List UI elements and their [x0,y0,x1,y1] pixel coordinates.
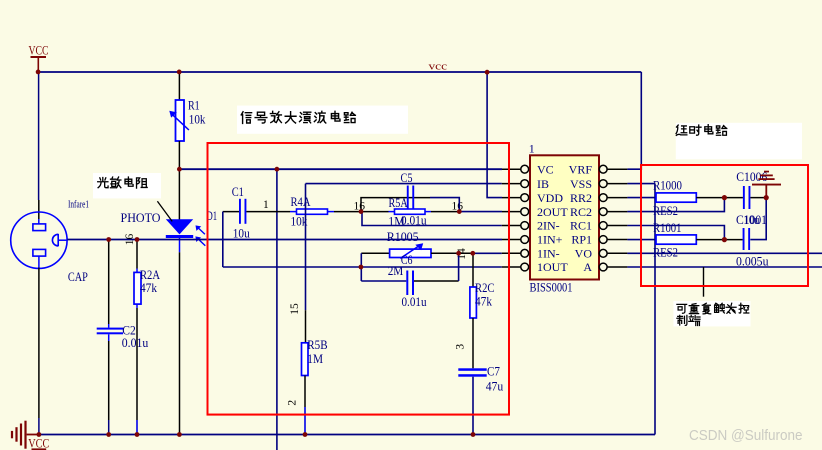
wire VDD drop x487 [487,72,502,198]
wire VCC top rail [38,71,641,73]
junction VDD drop [485,70,490,75]
wire node16R to 2OUT pin [459,211,502,213]
wire node16L to R5A [361,211,389,213]
svg-text:1IN-: 1IN- [537,247,560,261]
wire A row to edge [627,266,822,268]
node 16 right [457,209,462,214]
svg-text:0.01u: 0.01u [122,336,149,350]
wire RR2 row to R1000 [627,197,656,199]
capacitor C2 plates [97,328,123,330]
capacitor C1 plates [239,199,241,224]
svg-text:1: 1 [263,199,269,211]
label yan shi dian lu [676,125,727,136]
wire C7 bottom lead [472,377,474,435]
svg-text:2IN-: 2IN- [537,219,560,233]
junction R2C top [470,251,475,256]
svg-text:VO: VO [575,247,593,261]
wire R2C top lead [472,253,474,287]
sensor electrode 2 [33,249,46,256]
junction D1 cathode [177,432,182,437]
callout retrigger pointer [703,267,705,297]
wire left column to sensor [38,72,40,200]
pin 1IN+ circle [521,236,529,244]
wire pot row 1IN- [361,252,389,254]
svg-text:VCC: VCC [29,43,49,58]
svg-text:RC1: RC1 [570,219,592,233]
signal box red frame top copy [208,143,510,415]
pin RP1 lead [607,239,627,241]
junction R5B bottom [303,432,308,437]
IC pin names right [569,162,593,274]
wire RC1 row into box [627,226,724,240]
svg-text:VRF: VRF [569,162,593,176]
wire VSS drop x655 [654,184,656,435]
pin RC2 lead [607,211,627,213]
svg-text:R4A: R4A [291,195,311,209]
pin VRF lead [607,168,627,170]
svg-text:10u: 10u [744,213,761,227]
wire RC2 row into box [627,198,724,212]
photodiode D1 triangle [166,219,193,234]
svg-text:C1: C1 [232,185,244,199]
junction pot right / C6 [456,251,461,256]
wire C2 bottom lead [108,334,110,341]
svg-text:CSDN @Sulfurone: CSDN @Sulfurone [689,428,803,444]
pin VSS lead [607,183,627,185]
sensor drain half-circle [52,234,58,246]
svg-text:A: A [583,260,592,274]
resistor R5B body [302,343,309,376]
svg-text:10k: 10k [189,113,206,127]
junction C2 top [106,237,111,242]
resistor R2A body [134,272,141,304]
junction R1001-C1001 [722,237,727,242]
wire sensor top lead [38,200,40,219]
pin RR2 circle [599,194,607,202]
svg-text:VDD: VDD [537,191,563,205]
wire long column x277 [276,169,278,450]
capacitor C7 plates [458,368,486,371]
svg-text:C1006: C1006 [736,170,767,184]
pin 2OUT circle [521,208,529,216]
junction VCC rail left [36,70,41,75]
svg-text:R5B: R5B [307,338,327,352]
R1 wiper arrow [173,115,189,130]
svg-text:R2C: R2C [475,281,495,295]
delay box red frame [641,165,808,286]
label guang min dian zu [98,177,147,188]
svg-text:PHOTO: PHOTO [121,210,161,225]
wire R2C to C7 [472,318,474,368]
svg-text:Infare1: Infare1 [68,199,89,211]
wire R5B bottom lead [304,376,306,408]
resistor R1 (pot) body [176,100,185,141]
wire VRF to vcc rail [627,72,641,170]
svg-text:1: 1 [529,142,535,156]
pin VO circle [599,249,607,257]
svg-text:1OUT: 1OUT [537,260,568,274]
pin 2IN- circle [521,222,529,230]
capacitor C5 plates [407,186,409,211]
svg-text:2: 2 [287,400,299,406]
svg-text:RR2: RR2 [570,191,592,205]
svg-text:47k: 47k [475,295,493,309]
pin RR2 lead [607,197,627,199]
sensor electrode 1 [33,224,46,231]
pin A lead [607,266,627,268]
wire net VC row y169 [179,168,502,170]
power ground symbol top right [752,171,781,198]
pin IB circle [521,180,529,188]
wire C2 column [108,240,110,325]
pin RC2 circle [599,208,607,216]
svg-text:BISS0001: BISS0001 [530,280,573,294]
junction 1OUT / pot left [359,265,364,270]
svg-text:15: 15 [289,303,301,315]
wire R2A top lead [136,240,138,269]
wire C1006 to gnd node [750,197,766,199]
wire R1 bottom lead [178,141,180,169]
label xin hao fang da lv bo dian lu [241,111,355,123]
svg-text:2OUT: 2OUT [537,205,568,219]
pin RC1 circle [599,222,607,230]
resistor R4A body [297,209,328,214]
delay label white box [676,123,802,160]
power symbol VCC top-left [29,43,49,72]
pin 1IN- circle [521,249,529,257]
callout retrigger white box [673,301,750,326]
capacitor C1001 plates [743,228,745,250]
junction C1006 right [764,195,769,200]
svg-text:RP1: RP1 [571,233,592,247]
op-amp IC U1 BISS0001 body [530,155,599,279]
svg-text:R1005: R1005 [387,230,419,244]
wire D1 anode lead [178,169,180,219]
junction column x277 [275,167,280,172]
pin VRF circle [599,165,607,173]
photodiode arrow 2 [198,239,205,246]
photodiode arrow 1 [198,228,205,234]
svg-text:2M: 2M [388,264,404,278]
svg-text:RES2: RES2 [653,245,678,259]
junction C7 bottom [471,432,476,437]
junction C2 bottom [106,432,111,437]
resistor R1000 body [656,193,696,202]
signal box red frame [208,143,510,415]
resistor R5A body [395,209,426,214]
junction ground rail left [37,432,42,437]
wire feedback drop x222.8 [222,212,224,267]
svg-text:VC: VC [537,162,554,176]
svg-text:1M: 1M [307,352,323,366]
resistor R2C body [470,287,477,318]
wire R1 top lead [178,72,180,100]
junction R1000-C1006 [722,195,727,200]
wire VO row to edge [627,252,822,254]
svg-text:VSS: VSS [570,177,592,191]
junction R1 top [177,70,182,75]
R1005 wiper arrow [400,247,418,259]
junction R2A bottom [135,432,140,437]
wire D1 cathode lead [179,238,181,252]
wire R2A bottom lead [136,304,138,308]
node 16 left [359,209,364,214]
wire IB row y183.6 [306,183,502,185]
pin VC circle [521,165,529,173]
wire R5A to node16R [431,211,459,213]
wire R5B column upper [305,184,307,311]
callout pointer line [157,201,172,221]
R5A leads [389,211,395,213]
wire RP1 row to R1001 [627,239,656,241]
svg-text:vcc: vcc [429,60,448,72]
wire R1000 to C1006 [696,197,743,199]
svg-text:R1: R1 [188,98,200,112]
svg-text:16: 16 [124,234,136,246]
svg-text:47u: 47u [486,379,504,393]
svg-text:VCC: VCC [28,436,49,450]
svg-text:10u: 10u [233,226,251,240]
wire ground rail bottom [39,434,655,436]
svg-text:IB: IB [537,177,549,191]
sensor bottom lead [38,256,40,267]
svg-text:C7: C7 [487,364,500,378]
pin VDD circle [521,194,529,202]
svg-text:47k: 47k [140,281,158,295]
wire R4A to node16L [328,211,335,213]
potentiometer R1005 body [390,249,431,257]
svg-text:R5A: R5A [389,196,408,210]
svg-text:RC2: RC2 [570,205,592,219]
wire C6 branch [361,280,406,282]
wire R1001 to C1001 [696,239,742,241]
junction R2A top [135,237,140,242]
svg-text:CAP: CAP [68,269,88,284]
resistor R1001 body [656,235,696,244]
pin RP1 circle [599,236,607,244]
svg-text:R1000: R1000 [653,179,682,193]
wire C1 to R4A [246,211,290,213]
capacitor C6 plates [406,271,408,296]
pin VSS circle [599,180,607,188]
wire C5 branch [361,198,430,212]
svg-text:1IN+: 1IN+ [537,233,563,247]
sensor CAP (infrared) circle [11,212,67,268]
svg-text:3: 3 [455,344,467,350]
wire pot to junctions [431,252,473,254]
wire 2IN- branch [362,212,502,226]
sensor output stub [58,239,67,241]
photodiode D1 cathode bar [166,235,193,238]
pin VO lead [607,252,627,254]
svg-text:R1001: R1001 [653,221,682,235]
label ke zhong fu chu fa kong / zhi duan [677,303,749,325]
pin A circle [599,263,607,271]
IC pin names left [537,162,568,274]
wire right riser x766 [750,198,766,240]
signal label white box [237,106,408,134]
wire 2OUT row left segment [223,211,239,213]
svg-text:0.01u: 0.01u [402,295,428,309]
pin RC1 lead [607,225,627,227]
pin 1OUT circle [521,263,529,271]
callout photo-resistor white box [93,173,161,198]
wire pot-left riser [360,253,362,281]
capacitor C1006 plates [743,186,745,209]
node VC / R1 wiper [177,167,182,172]
ground symbol bottom-left [11,421,49,450]
wire 1OUT row y267 [223,266,502,268]
wire net 1IN+ rail y239.5 [67,239,502,241]
svg-text:C5: C5 [401,171,413,185]
delay box red frame top copy [641,165,808,286]
